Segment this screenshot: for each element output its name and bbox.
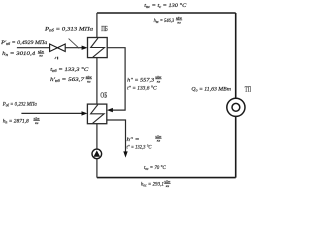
label h''_ob blank: [127, 135, 163, 144]
svg-text:t″ = 132,3 °С: t″ = 132,3 °С: [127, 144, 152, 151]
svg-text:Qо = 11,63 МВт: Qо = 11,63 МВт: [191, 86, 231, 92]
label h_p 2871: [3, 117, 41, 125]
svg-text:h″ =: h″ =: [127, 137, 140, 143]
svg-text:hп = 2871,8: hп = 2871,8: [3, 118, 29, 124]
label h'_pb 563,7: [50, 75, 93, 83]
label h''_pb 557,3: [127, 75, 162, 84]
drain OB out: [107, 120, 126, 152]
wire bottom return main: [97, 177, 236, 179]
svg-text:ПБ: ПБ: [101, 24, 108, 33]
svg-text:tпс = tс = 130 °С: tпс = tс = 130 °С: [144, 2, 186, 9]
consumer TP: [227, 98, 245, 116]
valve: [50, 44, 66, 52]
arrow drain down: [123, 151, 127, 157]
svg-text:ОБ: ОБ: [100, 90, 107, 99]
valve tag: [55, 57, 57, 59]
svg-text:tпб = 133,3 °С: tпб = 133,3 °С: [50, 66, 88, 73]
svg-text:hп = 3010,4: hп = 3010,4: [2, 51, 35, 57]
steam pipe to PB: [17, 47, 50, 49]
arrow into OB: [82, 111, 88, 115]
arrow into OB right: [107, 108, 113, 112]
svg-text:t″ = 133,6 °С: t″ = 133,6 °С: [127, 84, 157, 91]
wire right edge lower: [235, 116, 237, 177]
arrow into PB: [82, 46, 88, 50]
drain PB to OB: [107, 48, 125, 110]
label h_p 3010: [2, 50, 45, 58]
pump: [92, 149, 102, 159]
wire riser OB to pump: [96, 124, 98, 150]
heater PB: [88, 38, 108, 58]
steam pipe to OB: [21, 112, 82, 114]
svg-text:h″ = 557,3: h″ = 557,3: [127, 78, 154, 84]
wire right edge upper: [235, 13, 237, 98]
wire riser above PB: [96, 13, 98, 38]
label h_os 293,1: [141, 180, 171, 188]
wire pump to bottom: [96, 159, 98, 178]
label h_ps: [154, 16, 183, 24]
wire top supply main: [97, 12, 236, 14]
heater OB: [87, 104, 106, 124]
wire riser PB to OB: [96, 58, 98, 105]
wire valve to PB: [65, 47, 82, 49]
leader line P_pb: [69, 39, 80, 49]
svg-text:ТП: ТП: [245, 86, 251, 94]
